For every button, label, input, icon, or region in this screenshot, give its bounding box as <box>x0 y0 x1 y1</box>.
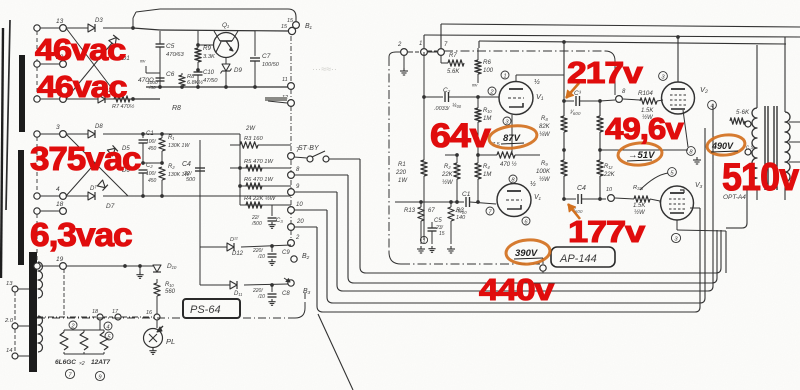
AP-144 box <box>551 247 615 267</box>
wire v2 plate to opt <box>678 37 757 40</box>
svg-text:10: 10 <box>296 202 303 208</box>
ground heater mid <box>139 272 141 275</box>
v2 plate wire <box>677 37 679 82</box>
terminal 16 <box>154 314 160 320</box>
v2 grid wire <box>663 99 668 101</box>
ground below 2 <box>403 56 405 68</box>
resistor R8a 82K <box>563 101 565 116</box>
svg-text:D7: D7 <box>106 203 115 210</box>
scan blotch near 12 <box>265 97 287 101</box>
tube V1 upper <box>499 82 533 115</box>
svg-text:/500: /500 <box>251 221 262 227</box>
svg-text:11: 11 <box>282 77 288 83</box>
ground v2k <box>688 155 697 158</box>
svg-text:R8: R8 <box>172 105 181 112</box>
terminal 3 <box>34 131 40 137</box>
wire hv cross2 <box>66 160 98 196</box>
terminal 8 <box>288 172 295 179</box>
left small terminal 20b <box>12 323 18 329</box>
svg-text:500: 500 <box>186 177 196 183</box>
bus diagonal <box>318 314 353 390</box>
pin 6 <box>522 217 530 225</box>
orange ellipse 390V <box>505 238 551 265</box>
terminal 7 <box>288 153 295 160</box>
wire chassis drop to 8 <box>614 61 616 95</box>
diode D3 <box>88 24 95 32</box>
svg-text:4: 4 <box>106 324 109 330</box>
svg-text:130K 1W: 130K 1W <box>168 143 190 149</box>
capacitor C7 <box>254 31 256 56</box>
svg-text:→51V: →51V <box>628 150 655 161</box>
svg-text:82K: 82K <box>539 124 551 130</box>
orange ellipse 490V <box>706 133 746 157</box>
wire cross 2 <box>66 43 112 99</box>
svg-text:4: 4 <box>710 103 713 109</box>
svg-text:ST·BY: ST·BY <box>298 145 320 152</box>
pilot lamp PL <box>156 320 158 328</box>
svg-text:16: 16 <box>146 310 153 316</box>
zener D9 <box>225 58 227 64</box>
svg-text:18: 18 <box>56 201 64 208</box>
wire hv top <box>66 133 88 135</box>
heater 6L6 pair <box>63 317 65 330</box>
resistor R7 5.6K <box>445 52 450 61</box>
svg-text:B₂: B₂ <box>302 253 310 260</box>
svg-text:C9: C9 <box>282 250 290 256</box>
resistor R13 67 <box>420 202 422 207</box>
terminal B2 <box>291 256 297 262</box>
svg-text:R7: R7 <box>449 53 457 59</box>
svg-text:R7 470½: R7 470½ <box>112 103 135 110</box>
v2 cathode <box>683 110 688 147</box>
svg-text:R₂: R₂ <box>168 164 175 170</box>
svg-text:C₂: C₂ <box>443 87 451 94</box>
svg-text:1M: 1M <box>483 172 491 178</box>
svg-text:C₂: C₂ <box>146 163 153 169</box>
svg-text:R1: R1 <box>398 162 406 168</box>
diode D10 <box>123 264 127 268</box>
wire v1b plate right <box>531 199 545 201</box>
wire 12 left <box>268 101 287 103</box>
v2 screen wire <box>694 98 708 102</box>
left small terminal 14b <box>12 353 18 359</box>
bus wire 1 <box>359 159 361 267</box>
left small terminal 13b <box>12 286 18 292</box>
diode D12 <box>227 243 234 251</box>
grounds row <box>420 246 422 249</box>
svg-text:D12: D12 <box>232 251 244 257</box>
wire to top rail <box>133 12 136 18</box>
pin 1 <box>501 71 509 79</box>
wire 8 to bus <box>294 174 348 176</box>
wire hv cross1 <box>66 134 128 196</box>
svg-text:6.8K½: 6.8K½ <box>187 79 203 86</box>
terminal 18 <box>34 208 40 214</box>
capacitor C5 <box>159 31 161 44</box>
terminal 4 <box>34 193 40 199</box>
wire d11 row <box>199 247 201 285</box>
orange arrow 217 <box>566 83 579 98</box>
capacitor C2 <box>142 163 144 168</box>
svg-text:17: 17 <box>112 309 119 315</box>
bus wire 4 <box>326 210 328 297</box>
svg-text:/10: /10 <box>257 294 265 300</box>
terminal 390 <box>542 258 544 264</box>
bus wire 3 <box>336 192 338 285</box>
svg-text:R₄: R₄ <box>483 164 490 170</box>
svg-text:1: 1 <box>422 238 425 244</box>
node bias out <box>131 97 135 101</box>
svg-text:V₂: V₂ <box>700 85 708 94</box>
heater transformer winding <box>38 262 43 298</box>
svg-text:R6 470 1W: R6 470 1W <box>244 177 274 183</box>
wire 10 to bus <box>294 209 327 211</box>
left small col wires <box>14 292 16 323</box>
capacitor C5a <box>432 222 434 226</box>
amp terminal 2 <box>401 49 408 56</box>
svg-text:×2: ×2 <box>79 361 85 367</box>
ps bottom dashdot <box>37 317 180 319</box>
rail y24 <box>441 24 800 27</box>
capacitor C9 <box>271 247 273 252</box>
terminal 18b <box>97 314 103 320</box>
svg-text:100: 100 <box>483 68 494 74</box>
plate v1b wire <box>513 182 515 184</box>
wire reg rail bottom <box>133 98 160 100</box>
svg-text:R13: R13 <box>404 208 416 214</box>
terminal 13 <box>34 25 40 31</box>
left dashed boundary <box>36 31 38 61</box>
svg-text:5·6K: 5·6K <box>736 109 750 116</box>
svg-text:C5: C5 <box>166 43 175 50</box>
v3 cathode down <box>676 220 678 230</box>
resistor R10 560 <box>156 279 158 283</box>
svg-text:C4: C4 <box>577 185 586 192</box>
grid return row <box>389 154 424 156</box>
opt top wires <box>756 45 758 108</box>
capacitor C1 <box>142 134 144 138</box>
svg-text:D₁₀: D₁₀ <box>167 263 177 270</box>
pin 3 <box>503 117 511 125</box>
terminal 12 <box>288 100 295 107</box>
terminal B3 <box>288 280 294 286</box>
svg-text:R₂: R₂ <box>444 164 451 170</box>
svg-text:2: 2 <box>397 42 402 48</box>
terminal 10 <box>288 207 295 214</box>
wire 20 to bus <box>294 226 317 228</box>
amp chassis left <box>388 57 390 252</box>
svg-text:V₁: V₁ <box>536 92 544 101</box>
wire 20 row <box>271 204 273 206</box>
plate wire v1a <box>515 75 517 82</box>
resistor R12b 22K <box>599 150 601 160</box>
wire 19 row <box>66 265 153 267</box>
capacitor C3ps <box>271 205 273 216</box>
svg-text:1: 1 <box>503 73 506 79</box>
svg-text:100K: 100K <box>536 169 551 175</box>
amp terminal 1 <box>421 49 428 56</box>
pin 3 v2 <box>659 72 668 81</box>
svg-text:PS-64: PS-64 <box>190 304 221 316</box>
terminal 2 <box>288 240 295 247</box>
wire grid row <box>424 96 443 98</box>
svg-text:C8: C8 <box>282 291 290 297</box>
cathode v1b <box>513 209 515 214</box>
top rail to B1 <box>160 8 288 10</box>
v3 grid wire <box>659 201 661 203</box>
pin 7 <box>486 207 494 215</box>
svg-text:D8: D8 <box>95 124 103 130</box>
svg-text:470/63: 470/63 <box>166 52 185 58</box>
svg-text:R3 160: R3 160 <box>244 136 263 142</box>
opt core <box>764 106 766 190</box>
svg-text:560: 560 <box>165 289 176 295</box>
bus line b3 <box>295 282 308 284</box>
svg-text:10: 10 <box>606 187 613 193</box>
svg-text:C1: C1 <box>462 191 471 198</box>
wire 1-7 <box>428 51 438 53</box>
svg-text:D₁₁: D₁₁ <box>234 291 242 297</box>
node 177v <box>562 197 566 201</box>
resistor 470 half <box>478 154 497 156</box>
svg-text:87V: 87V <box>503 133 521 144</box>
svg-text:.0033/: .0033/ <box>434 106 450 112</box>
svg-text:AP-144: AP-144 <box>559 253 597 265</box>
svg-text:R6: R6 <box>483 59 491 66</box>
svg-text:22K: 22K <box>603 172 616 178</box>
diode D8 <box>88 130 95 138</box>
wire row 198 <box>395 201 445 203</box>
pin 8b <box>687 147 696 156</box>
capacitor C10 <box>197 70 199 72</box>
490 node wire <box>747 127 749 148</box>
svg-text:C7: C7 <box>262 53 271 60</box>
svg-text:½: ½ <box>534 78 540 86</box>
wire opt return <box>746 186 748 223</box>
svg-text:15: 15 <box>439 231 445 237</box>
svg-text:470Ω: 470Ω <box>138 77 154 84</box>
svg-text:½W: ½W <box>539 176 551 183</box>
svg-text:¹⁄₆₀₀: ¹⁄₆₀₀ <box>570 110 581 116</box>
transistor Q1 <box>214 33 239 58</box>
node mid <box>143 162 162 164</box>
svg-text:½W: ½W <box>442 179 454 186</box>
svg-text:D3: D3 <box>95 18 103 24</box>
terminal 10a <box>608 195 615 202</box>
svg-text:/10: /10 <box>257 254 265 260</box>
wire q1 base <box>198 44 213 46</box>
diode D2 <box>98 95 105 103</box>
resistor R8b <box>181 73 183 75</box>
svg-text:C6: C6 <box>166 71 175 78</box>
wire sw to bus <box>329 158 360 160</box>
opt right taps <box>789 121 800 123</box>
svg-text:R₁₀: R₁₀ <box>483 108 492 114</box>
svg-text:¼₀₀: ¼₀₀ <box>452 103 462 109</box>
svg-text:2W: 2W <box>245 126 256 132</box>
wire top hv to R3 <box>162 133 240 135</box>
svg-text:ᵐᵛ: ᵐᵛ <box>472 84 478 90</box>
svg-text:R₁₀: R₁₀ <box>165 282 174 288</box>
svg-text:6L6GC: 6L6GC <box>55 359 76 366</box>
amp chassis top <box>389 52 396 57</box>
svg-text:470 ½: 470 ½ <box>500 161 517 168</box>
wire r2r4 bottom <box>456 198 458 202</box>
orange ellipse -51V <box>617 141 662 166</box>
svg-text:C4: C4 <box>182 161 191 168</box>
svg-text:140: 140 <box>456 215 466 221</box>
svg-text:15: 15 <box>281 24 288 30</box>
PS-64 box <box>183 299 240 318</box>
amp terminal 7a <box>438 49 445 56</box>
terminal 20 <box>288 224 295 231</box>
capacitor C8 <box>271 285 273 292</box>
svg-text:14: 14 <box>6 348 12 354</box>
terminal 15ps <box>288 27 295 34</box>
terminal column wires <box>37 27 63 29</box>
svg-text:¼W: ¼W <box>539 132 551 138</box>
hv plus rail <box>162 133 240 135</box>
bus wire 5 <box>316 227 318 306</box>
wire r5 row <box>239 145 241 168</box>
terminal 490 <box>745 149 751 155</box>
capacitor C6 <box>156 77 165 79</box>
terminal 9 <box>288 189 295 196</box>
svg-text:100/50: 100/50 <box>262 62 280 68</box>
resistor R3a 140 <box>450 202 452 207</box>
svg-text:12AT7: 12AT7 <box>91 359 110 366</box>
svg-text:15: 15 <box>287 18 294 24</box>
wire cathode return v3 <box>725 231 727 273</box>
wire to terminal 8 <box>600 100 615 101</box>
pin 3 v3 <box>671 233 680 242</box>
heater dash rail <box>37 316 96 318</box>
terminal 20 <box>34 61 40 67</box>
svg-text:D¹²: D¹² <box>230 237 238 243</box>
diode D5 <box>107 145 118 156</box>
opt primary winding <box>752 108 757 188</box>
resistor R1 130K <box>161 134 163 138</box>
resistor R4 1M <box>477 155 479 163</box>
svg-text:Q₁: Q₁ <box>222 22 229 29</box>
wire c6 top <box>146 72 160 74</box>
svg-text:V₃: V₃ <box>695 182 703 189</box>
svg-text:PL: PL <box>166 337 175 346</box>
svg-text:67: 67 <box>428 208 435 214</box>
wire bias rail top <box>66 27 88 29</box>
svg-text:C5: C5 <box>434 218 442 224</box>
svg-text:R5 470 1W: R5 470 1W <box>244 159 274 165</box>
svg-text:390V: 390V <box>515 248 538 259</box>
svg-text:ᵐᵛ: ᵐᵛ <box>140 60 146 66</box>
diode D1 <box>109 35 120 45</box>
svg-text:R₁: R₁ <box>168 135 174 141</box>
svg-text:1.5K: 1.5K <box>633 203 646 209</box>
svg-text:490V: 490V <box>711 141 734 151</box>
svg-text:-¼₀₀: -¼₀₀ <box>455 209 467 215</box>
svg-text:2: 2 <box>295 235 300 241</box>
pin 2 <box>488 87 496 95</box>
svg-text:19: 19 <box>56 256 64 263</box>
hv mid rail to C4 <box>162 162 200 164</box>
svg-text:1: 1 <box>419 41 422 47</box>
pin 4 v2 <box>708 101 717 110</box>
terminal opt <box>745 121 751 127</box>
resistor R6 100 <box>477 24 479 27</box>
terminal 19 <box>34 263 40 269</box>
svg-text:220: 220 <box>395 170 407 176</box>
power transformer core bar upper <box>19 55 25 132</box>
svg-text:/50: /50 <box>148 85 156 91</box>
svg-text:450: 450 <box>148 178 157 184</box>
svg-text:100/: 100/ <box>146 171 156 177</box>
resistor R9v <box>197 31 199 48</box>
wire reg rail top <box>133 28 160 30</box>
tube V3 <box>661 186 694 220</box>
svg-text:18: 18 <box>92 309 99 315</box>
svg-text:C10: C10 <box>203 70 215 76</box>
svg-text:···≈≈··: ···≈≈·· <box>312 64 337 74</box>
svg-text:R4 22K ½W: R4 22K ½W <box>244 195 276 202</box>
svg-text:47/50: 47/50 <box>203 78 218 84</box>
pin 5 v3 <box>668 168 677 177</box>
wire heater drop 1 <box>63 269 65 316</box>
svg-text:R9: R9 <box>203 45 211 52</box>
ps boundary dash <box>290 36 292 83</box>
svg-text:D9: D9 <box>234 67 242 74</box>
terminal 8a <box>616 96 623 103</box>
wire -51 to pin8 <box>660 149 687 151</box>
scan sheet edge left <box>1 28 3 278</box>
svg-text:3.3K: 3.3K <box>203 54 216 60</box>
svg-text:13: 13 <box>56 18 64 25</box>
cathode wire v1a <box>511 107 513 130</box>
wire to terminal 10a <box>600 198 606 200</box>
svg-text:R₁₂: R₁₂ <box>604 164 613 170</box>
hv minus rail <box>143 195 291 197</box>
svg-text:½: ½ <box>530 180 536 188</box>
cathode node 87V <box>506 126 508 133</box>
svg-text:13: 13 <box>6 281 13 287</box>
diode D6 <box>97 180 108 191</box>
svg-text:3: 3 <box>56 124 60 131</box>
svg-text:20: 20 <box>296 219 304 225</box>
wire 9 to bus <box>294 191 337 193</box>
terminal 11 <box>288 83 295 90</box>
svg-text:2.0: 2.0 <box>4 318 14 324</box>
svg-text:B₃: B₃ <box>303 288 311 295</box>
rail y35 <box>424 35 800 37</box>
ground mv c6 <box>145 66 147 73</box>
resistor R2 22K <box>456 155 458 162</box>
heater transformer core bar <box>29 252 37 372</box>
svg-text:R104: R104 <box>638 90 653 97</box>
orange ellipse 87V <box>488 124 538 151</box>
terminal 4 <box>34 96 40 102</box>
orange arrow 177 <box>568 204 580 219</box>
wire cross 1 <box>66 28 120 99</box>
opt bottom wires <box>756 186 758 200</box>
resistor R9a 100K <box>561 160 567 176</box>
svg-text:R₈: R₈ <box>541 116 548 122</box>
terminal B1 <box>293 22 300 29</box>
rail y41 <box>479 41 786 44</box>
resistor R1 220 1W <box>423 52 425 97</box>
svg-text:1W: 1W <box>398 178 408 184</box>
wire d12 row <box>199 225 201 247</box>
diode D7 <box>88 192 95 200</box>
amp chassis bottom <box>401 263 540 265</box>
